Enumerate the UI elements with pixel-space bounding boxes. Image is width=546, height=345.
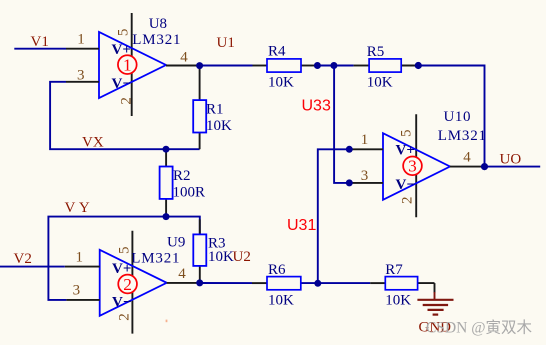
resistor R7 xyxy=(370,262,434,308)
node V1 xyxy=(14,34,66,50)
pin 3 of U10 xyxy=(346,168,383,186)
svg-text:2: 2 xyxy=(118,97,134,105)
svg-text:U2: U2 xyxy=(233,249,251,265)
pin 1 of U8 xyxy=(66,32,99,49)
svg-text:10K: 10K xyxy=(367,75,393,91)
pin 4 of U9 xyxy=(167,266,200,283)
svg-text:4: 4 xyxy=(180,50,188,66)
wire U9 output to R6 (net U31) xyxy=(196,279,252,286)
resistor R5 xyxy=(354,44,418,91)
svg-text:2: 2 xyxy=(123,275,132,294)
svg-text:R6: R6 xyxy=(268,262,286,278)
pin 1 of U10 xyxy=(346,132,383,153)
svg-text:V−: V− xyxy=(112,295,131,311)
svg-text:2: 2 xyxy=(399,196,415,204)
svg-text:1: 1 xyxy=(77,32,85,48)
svg-text:R5: R5 xyxy=(367,44,385,60)
wire between R4 and R5 (net U33) xyxy=(314,62,354,69)
svg-text:VX: VX xyxy=(82,135,104,151)
wire VX feedback (U8 pin3 to R1/R2) xyxy=(50,82,200,151)
svg-text:3: 3 xyxy=(77,68,85,84)
resistor R3 xyxy=(193,219,251,283)
pin 4 of U10 xyxy=(450,150,485,167)
svg-text:3: 3 xyxy=(408,157,417,176)
op-amp U10 xyxy=(383,114,450,217)
op-amp U9 xyxy=(100,231,167,334)
svg-text:LM321: LM321 xyxy=(132,32,181,48)
svg-text:5: 5 xyxy=(398,129,414,137)
wire U33 vertical to U10 pin3 xyxy=(334,66,350,183)
svg-text:U31: U31 xyxy=(287,217,316,234)
svg-text:U8: U8 xyxy=(149,16,167,32)
svg-text:10K: 10K xyxy=(268,292,294,308)
svg-text:5: 5 xyxy=(116,29,132,37)
svg-text:V1: V1 xyxy=(31,34,49,50)
pin 3 of U8 xyxy=(66,68,99,84)
svg-text:1: 1 xyxy=(123,56,132,75)
svg-text:U1: U1 xyxy=(217,35,235,51)
resistor R2 xyxy=(160,146,205,217)
node U1 (U8 output net) xyxy=(196,35,252,69)
svg-text:1: 1 xyxy=(76,250,84,266)
wire U31 vertical (R6 node to U10 pin1) xyxy=(318,149,350,283)
svg-text:R7: R7 xyxy=(385,262,403,278)
svg-text:10K: 10K xyxy=(268,75,294,91)
svg-text:4: 4 xyxy=(178,266,186,282)
wire R5 to output feedback xyxy=(415,62,485,167)
svg-text:1: 1 xyxy=(361,132,369,148)
svg-text:10K: 10K xyxy=(206,118,232,134)
svg-text:3: 3 xyxy=(361,168,369,184)
svg-text:V−: V− xyxy=(396,177,415,193)
op-amp U8 xyxy=(99,13,166,116)
svg-text:R2: R2 xyxy=(173,168,191,184)
svg-text:3: 3 xyxy=(73,283,81,299)
svg-text:V2: V2 xyxy=(14,251,32,267)
resistor R1 xyxy=(193,66,232,150)
svg-text:VY: VY xyxy=(65,200,94,216)
svg-text:LM321: LM321 xyxy=(131,251,180,267)
svg-text:10K: 10K xyxy=(385,292,411,308)
svg-text:U10: U10 xyxy=(444,109,472,125)
svg-text:2: 2 xyxy=(116,313,132,321)
svg-text:R4: R4 xyxy=(268,44,286,60)
svg-text:100R: 100R xyxy=(173,185,206,201)
stray speck xyxy=(166,320,168,323)
resistor R6 xyxy=(252,262,318,308)
pin 3 of U9 xyxy=(66,283,99,300)
node V2 xyxy=(0,251,65,267)
svg-text:U9: U9 xyxy=(167,235,185,251)
ground xyxy=(417,283,453,335)
pin 4 of U8 xyxy=(166,50,200,66)
svg-text:LM321: LM321 xyxy=(438,128,487,144)
svg-text:V−: V− xyxy=(112,76,131,92)
wire VY feedback (U9 pin3 to R2/R3) xyxy=(48,200,199,300)
svg-text:5: 5 xyxy=(116,247,132,255)
svg-text:UO: UO xyxy=(500,152,522,168)
svg-text:10K: 10K xyxy=(208,249,234,265)
pin 1 of U9 xyxy=(65,250,100,267)
wire R6 to R7 xyxy=(314,280,370,287)
svg-text:U33: U33 xyxy=(302,98,331,115)
svg-text:CSDN @寅双木: CSDN @寅双木 xyxy=(426,319,532,337)
node UO (output) xyxy=(481,152,540,171)
svg-text:4: 4 xyxy=(463,150,471,166)
svg-text:R1: R1 xyxy=(206,102,224,118)
resistor R4 xyxy=(253,44,318,91)
